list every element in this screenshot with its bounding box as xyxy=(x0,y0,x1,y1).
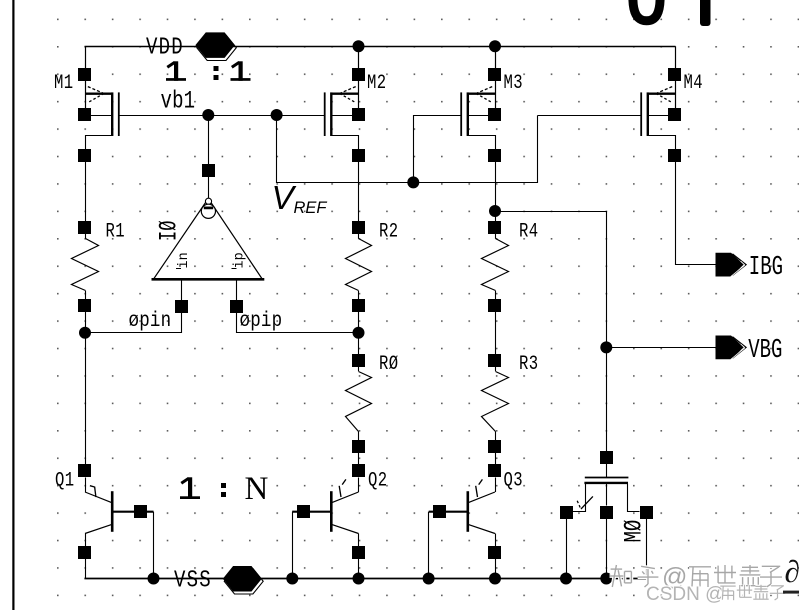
wire M1 drain to R1 xyxy=(85,156,87,228)
resistor R0 xyxy=(346,353,399,453)
svg-text:øpip: øpip xyxy=(240,309,283,333)
svg-text:M3: M3 xyxy=(504,72,524,94)
wire M0 drain drop xyxy=(646,519,648,579)
transistor Q1 xyxy=(55,464,154,579)
node VSS junction M0 source xyxy=(560,573,572,585)
wire M4 gate xyxy=(538,115,642,117)
svg-text:IØ: IØ xyxy=(156,220,184,241)
page border line xyxy=(12,0,14,610)
pin VBG xyxy=(716,336,783,367)
wire M2 source drop xyxy=(358,46,360,109)
wire M0 bulk drop xyxy=(606,519,608,579)
ratio label 1 : 1 xyxy=(166,61,251,81)
wire R2 to R0 xyxy=(358,305,360,360)
wire net vb1 xyxy=(119,115,325,117)
svg-text:R4: R4 xyxy=(519,221,539,243)
node VDD junction at M3 xyxy=(489,40,501,52)
wire VBG branch to M0 gate xyxy=(496,212,607,452)
svg-text:∂: ∂ xyxy=(785,554,799,589)
wire M3 source drop xyxy=(495,46,497,109)
wire M3 drain to R4 xyxy=(495,156,497,228)
pin IBG xyxy=(716,253,783,284)
svg-text:M1: M1 xyxy=(54,72,74,94)
svg-text:VBG: VBG xyxy=(748,336,782,366)
node R1 / op-amp in junction xyxy=(79,327,91,339)
transistor M3 xyxy=(461,68,523,162)
node VSS junction M0 bulk xyxy=(600,573,612,585)
svg-text:RØ: RØ xyxy=(379,353,399,375)
svg-text:CSDN @: CSDN @ xyxy=(646,584,724,605)
svg-text:M4: M4 xyxy=(684,72,704,94)
node vb1 / op-amp output junction xyxy=(202,109,214,121)
wire VSS rail xyxy=(84,578,646,580)
wire M4 source drop xyxy=(675,46,677,109)
wire R3 to Q3 emitter xyxy=(495,446,497,471)
wire op-amp input p (net pip) xyxy=(237,280,359,333)
wire M0 source drop xyxy=(566,519,568,579)
op-amp I0 xyxy=(152,164,265,313)
svg-text:R3: R3 xyxy=(519,353,539,375)
transistor M2 xyxy=(325,68,387,162)
node VREF / M3 gate junction xyxy=(407,176,419,188)
watermark zhihu @zaishimengzi xyxy=(610,563,783,591)
node M3 drain / VBG branch junction xyxy=(489,205,501,217)
resistor R1 xyxy=(72,221,126,312)
transistor M1 xyxy=(54,68,119,162)
svg-text:REF: REF xyxy=(294,199,328,217)
wire M2 drain to R2 xyxy=(358,156,360,228)
node VSS junction Q2 collector xyxy=(353,573,365,585)
node vb1 / VREF junction xyxy=(271,109,283,121)
node VSS junction Q2 base xyxy=(286,573,298,585)
svg-text:VSS: VSS xyxy=(174,566,212,594)
svg-text:øpin: øpin xyxy=(129,309,172,333)
svg-text:N: N xyxy=(245,471,269,507)
transistor M0 (MOS cap) xyxy=(560,451,653,543)
svg-text:IBG: IBG xyxy=(749,253,783,283)
transistor Q2 xyxy=(292,464,387,579)
resistor R2 xyxy=(346,221,399,312)
svg-text:ip: ip xyxy=(233,252,248,268)
VSS supply symbol xyxy=(174,566,263,594)
wire M1 source drop xyxy=(85,46,87,109)
svg-text:vb1: vb1 xyxy=(161,87,196,115)
resistor R4 xyxy=(482,221,539,312)
wire M4 drain to IBG xyxy=(676,157,717,265)
svg-text:Q2: Q2 xyxy=(368,470,388,492)
node VSS junction Q1 base xyxy=(148,573,160,585)
wire R0 to Q2 emitter xyxy=(358,446,360,471)
svg-text:VDD: VDD xyxy=(146,33,184,61)
wire VDD rail xyxy=(85,46,676,48)
svg-text:M2: M2 xyxy=(367,72,387,94)
svg-text:Q1: Q1 xyxy=(55,470,75,492)
wire op-amp input n (net pin) xyxy=(86,280,182,333)
node R2 / op-amp ip junction xyxy=(353,327,365,339)
VDD supply symbol xyxy=(146,32,236,61)
node VSS junction Q3 base xyxy=(423,573,435,585)
svg-text:R2: R2 xyxy=(379,221,399,243)
wire M3 gate xyxy=(414,116,462,183)
wire R4 to R3 xyxy=(495,305,497,360)
transistor M4 xyxy=(641,68,703,162)
cropped heading glyph g (top-right) xyxy=(633,0,660,21)
wire R1 to Q1 emitter xyxy=(85,305,87,471)
svg-text:in: in xyxy=(177,252,192,268)
watermark CSDN @zaishimengzi xyxy=(646,584,799,605)
cropped heading glyph stem (top-right) xyxy=(700,0,711,26)
svg-text:MØ: MØ xyxy=(620,520,648,543)
resistor R3 xyxy=(482,353,539,453)
node VSS junction Q3 collector xyxy=(489,573,501,585)
svg-text:R1: R1 xyxy=(106,221,126,243)
node VBG junction xyxy=(600,341,612,353)
wire VREF: drop, run and rise to M4 gate xyxy=(277,116,538,183)
wire VBG output xyxy=(606,347,716,349)
node VDD junction at M2 xyxy=(353,40,365,52)
wire op-amp output to vb1 xyxy=(208,115,210,199)
ratio label 1 : N xyxy=(180,471,269,507)
svg-text:Q3: Q3 xyxy=(504,470,524,492)
transistor Q3 xyxy=(429,464,524,579)
